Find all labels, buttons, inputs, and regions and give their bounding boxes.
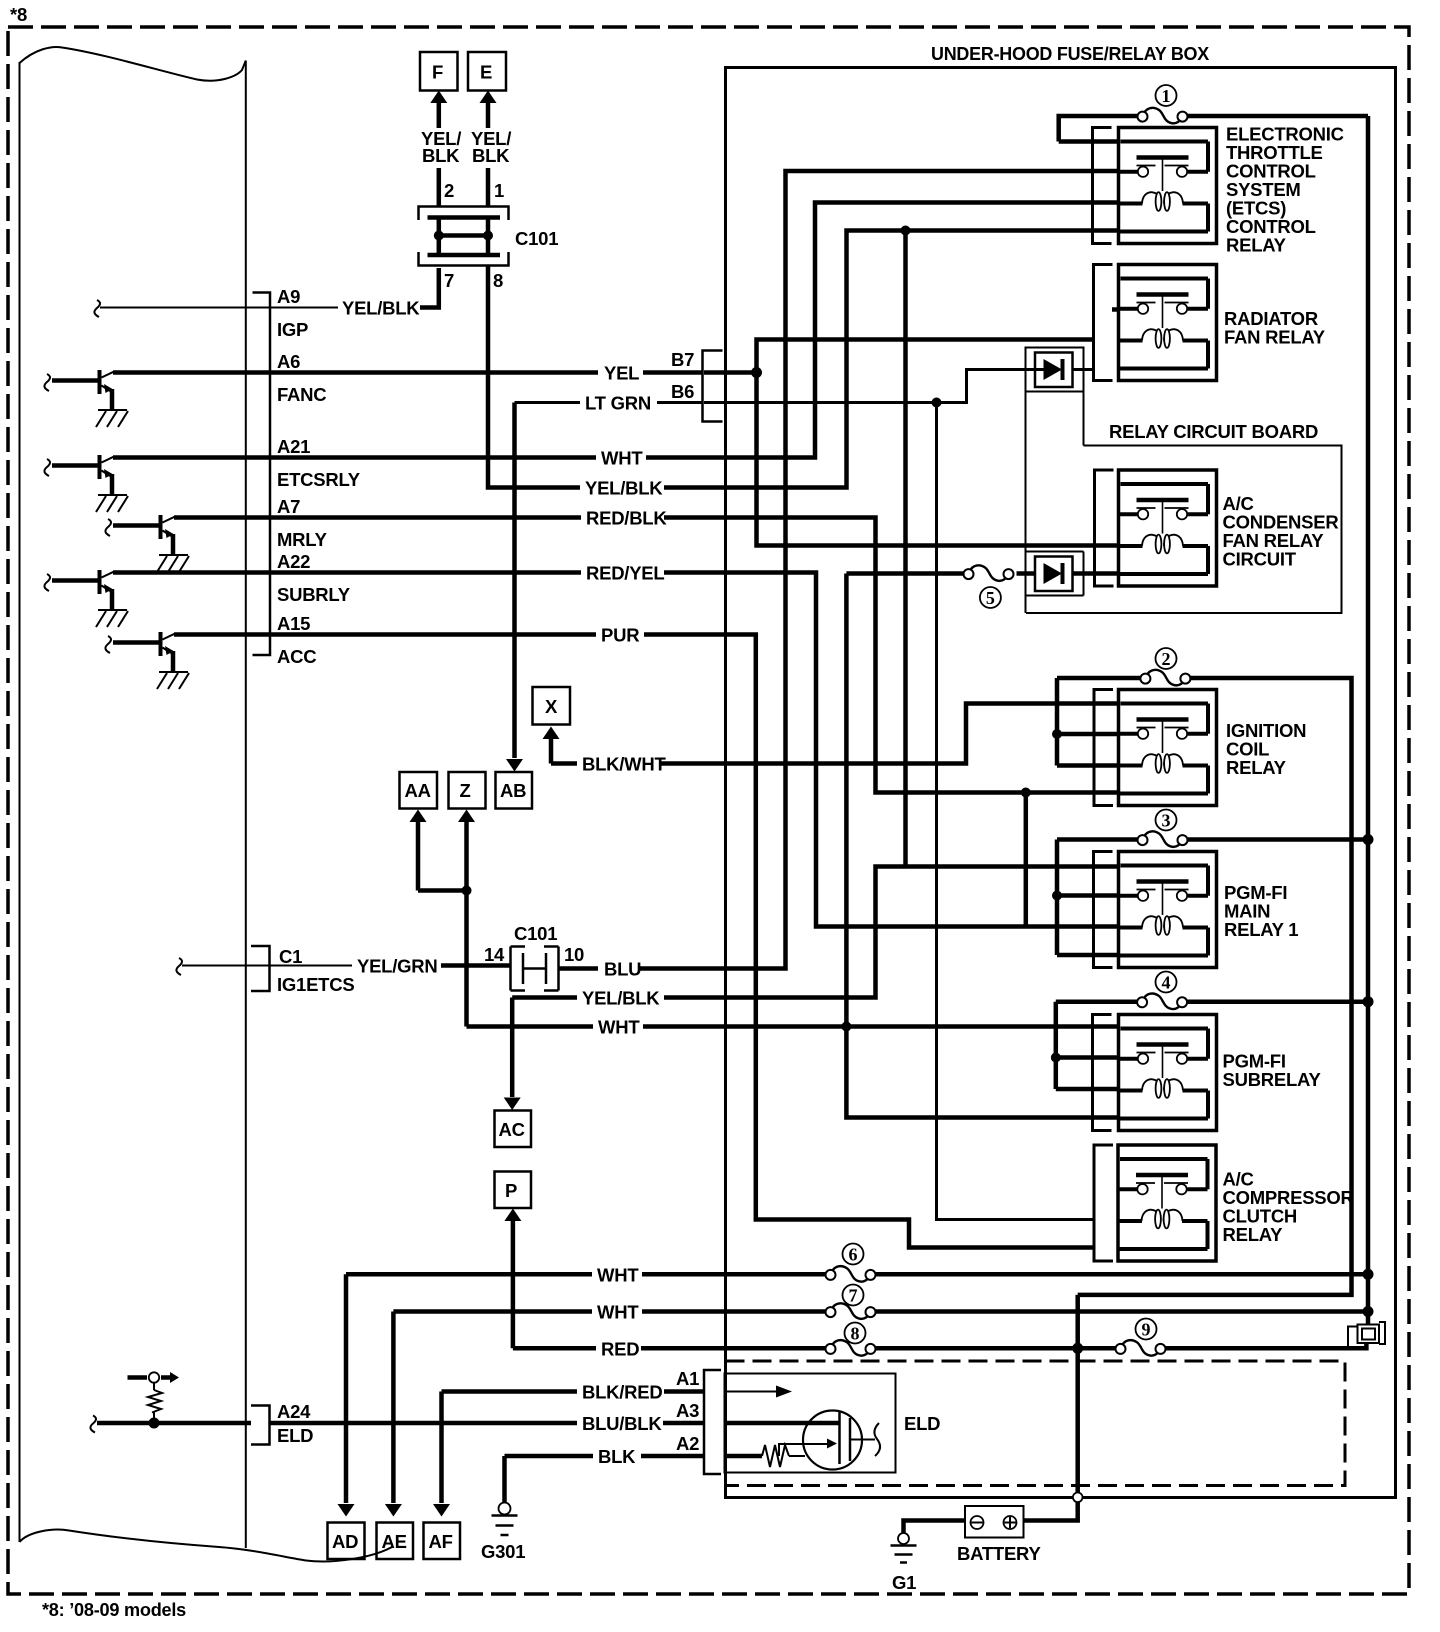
wire YEL inside box: [704, 370, 757, 375]
svg-text:AC: AC: [499, 1119, 525, 1140]
junction dot bus/fuse4: [1363, 996, 1374, 1007]
svg-text:5: 5: [986, 588, 995, 608]
svg-text:FANC: FANC: [277, 384, 326, 405]
arrow into P: [504, 1209, 521, 1222]
svg-text:7: 7: [444, 270, 454, 291]
wire YEL branch up to radiator fan coil: [757, 340, 1094, 373]
svg-text:9: 9: [1142, 1320, 1151, 1340]
svg-text:A7: A7: [277, 496, 300, 517]
fuse 7 number: [843, 1285, 864, 1306]
svg-text:B6: B6: [671, 381, 694, 402]
wire A24 row: [90, 1416, 96, 1433]
ground G1: [898, 1533, 909, 1544]
wire A9 IGP to C101 pin7: [94, 300, 172, 317]
wire C101 pin2 to F: [437, 168, 442, 207]
wire branch to main relay top contact: [903, 231, 908, 867]
terminal box AD: [328, 1523, 365, 1560]
svg-text:RED: RED: [601, 1338, 639, 1359]
transistor Q2 (ETCSRLY driver): [44, 455, 128, 512]
arrow into AD: [344, 1274, 349, 1503]
svg-text:A9: A9: [277, 286, 300, 307]
svg-text:AA: AA: [405, 780, 431, 801]
svg-text:PUR: PUR: [601, 625, 639, 646]
arrow into X: [549, 738, 554, 764]
wire subrelay coil left feed: [1056, 1087, 1119, 1092]
bracket U1: [1093, 128, 1112, 244]
junction dot fuse6/bus: [1363, 1269, 1374, 1280]
svg-text:E: E: [480, 62, 492, 83]
wire diode1 out to radiator fan coil return: [1073, 368, 1094, 371]
svg-text:ETCSRLY: ETCSRLY: [277, 469, 361, 490]
connector bracket A24: [251, 1406, 270, 1445]
svg-text:*8: *8: [10, 4, 27, 25]
svg-text:YEL/BLK: YEL/BLK: [342, 298, 420, 319]
wire RED row to fuse 8: [513, 1346, 596, 1351]
svg-text:YEL/BLK: YEL/BLK: [582, 988, 660, 1009]
wire YEL/BLK to ETCS coil return: [664, 231, 1119, 488]
svg-text:SUBRLY: SUBRLY: [277, 584, 351, 605]
svg-text:YEL/GRN: YEL/GRN: [357, 956, 437, 977]
arrow into F: [437, 100, 442, 128]
transistor Q5 (ACC driver): [105, 632, 189, 689]
svg-text:ELD: ELD: [277, 1425, 313, 1446]
svg-text:14: 14: [484, 944, 505, 965]
junction dot ignition left contact: [1052, 729, 1062, 739]
wire A21 ETCSRLY: [113, 455, 596, 460]
wire LT GRN branch down to compressor coil: [937, 403, 1095, 1220]
svg-text:C1: C1: [279, 946, 302, 967]
arrow into AE: [391, 1312, 396, 1504]
svg-text:UNDER-HOOD FUSE/RELAY BOX: UNDER-HOOD FUSE/RELAY BOX: [931, 43, 1210, 64]
svg-text:BATTERY: BATTERY: [957, 1543, 1041, 1564]
fuse 4 number: [1156, 972, 1177, 993]
svg-text:BLK: BLK: [472, 145, 510, 166]
svg-text:IG1ETCS: IG1ETCS: [277, 974, 354, 995]
svg-text:BLK/WHT: BLK/WHT: [582, 754, 666, 775]
wire A6 FANC to B7: [113, 370, 598, 375]
bracket U2: [1094, 265, 1113, 381]
junction dot ignition return / main coil feed: [1021, 788, 1031, 798]
wire A7 MRLY: [174, 515, 581, 520]
wire WHT row1 to fuse 6: [346, 1272, 592, 1277]
svg-text:X: X: [545, 696, 558, 717]
junction dot AA/Z: [462, 886, 472, 896]
junction dot fuse7/bus: [1363, 1306, 1374, 1317]
bracket U4: [1094, 690, 1113, 806]
terminal box Z: [449, 772, 486, 809]
wire subrelay coil return feed: [846, 1027, 1118, 1118]
arrow into AF: [439, 1392, 444, 1504]
arrow into AB: [512, 403, 517, 759]
svg-text:AB: AB: [500, 780, 526, 801]
connector bracket C1: [251, 946, 270, 991]
svg-text:AD: AD: [332, 1531, 358, 1552]
transistor Q3 (MRLY driver): [105, 515, 189, 572]
ELD box: [725, 1374, 896, 1473]
svg-text:BLK: BLK: [598, 1446, 636, 1467]
transistor Q1 (FANC driver): [44, 370, 128, 427]
svg-text:AE: AE: [382, 1531, 407, 1552]
fuse 4: [1137, 994, 1187, 1010]
junction dot ETCS return branch: [901, 226, 911, 236]
fuse 5: [964, 565, 1014, 581]
terminal box AC: [495, 1111, 532, 1148]
terminal box E: [468, 52, 506, 91]
svg-text:A1: A1: [676, 1368, 699, 1389]
svg-text:A3: A3: [676, 1400, 699, 1421]
terminal box AA: [400, 772, 438, 809]
fuse 8: [826, 1340, 876, 1356]
bracket U3: [1095, 470, 1114, 586]
svg-text:A6: A6: [277, 351, 300, 372]
wire YEL/BLK from C101 pin8: [488, 266, 580, 488]
svg-text:YEL/BLK: YEL/BLK: [585, 478, 663, 499]
transistor Q4 (SUBRLY driver): [44, 570, 128, 627]
svg-text:A15: A15: [277, 613, 310, 634]
junction dot YEL: [751, 367, 762, 378]
svg-text:A24: A24: [277, 1401, 311, 1422]
fuse 9: [1116, 1340, 1166, 1356]
junction dot WHT bus: [841, 1022, 851, 1032]
terminal box X: [533, 687, 571, 725]
wire WHT row2 to fuse 7: [393, 1309, 592, 1314]
fuse 2 number: [1156, 648, 1177, 669]
wire YEL branch down to condenser fan coil: [757, 373, 1119, 546]
fuse 6: [826, 1266, 876, 1282]
ground G301: [502, 1456, 507, 1502]
bracket U6: [1093, 1015, 1112, 1131]
svg-text:3: 3: [1162, 811, 1171, 831]
terminal box AE: [377, 1523, 414, 1560]
svg-text:LT GRN: LT GRN: [585, 393, 651, 414]
junction dot battery feed: [1072, 1343, 1083, 1354]
svg-text:A21: A21: [277, 436, 310, 457]
wire radiator left contact stub: [1112, 307, 1119, 312]
battery: [965, 1506, 1024, 1538]
wire battery positive column: [1024, 1295, 1078, 1521]
connector bracket A9-A15: [253, 293, 271, 656]
svg-text:C101: C101: [514, 923, 557, 944]
svg-text:10: 10: [564, 944, 584, 965]
relay U5 PGM-FI main relay 1: [1119, 852, 1217, 968]
junction dot LT GRN: [932, 398, 942, 408]
wire BLU from C101 pin10: [559, 966, 599, 971]
svg-text:2: 2: [1162, 649, 1171, 669]
ELD pull-up symbol (inside ECM): [128, 1375, 173, 1380]
wire BLK to G301: [505, 1454, 594, 1459]
svg-text:G301: G301: [481, 1541, 525, 1562]
wire PUR to compressor relay coil return: [644, 635, 1094, 1248]
connector C101 (pins 2/1 to 7/8): [419, 207, 509, 266]
fuse 8 number: [845, 1323, 866, 1344]
wire fuse3 row: [1057, 837, 1368, 842]
bracket U5: [1094, 852, 1113, 968]
fuse 2: [1140, 670, 1190, 686]
svg-text:P: P: [505, 1180, 517, 1201]
relay U2 radiator fan relay: [1119, 265, 1217, 381]
wire LT GRN to B6: [515, 401, 581, 404]
svg-text:A2: A2: [676, 1433, 699, 1454]
junction dot main left contact: [1052, 891, 1062, 901]
fuse 9 number: [1136, 1319, 1157, 1340]
wire C1 IG1ETCS to C101 pin14: [176, 958, 269, 975]
diode D1 (radiator fan): [1035, 353, 1073, 388]
ELD source resistor: [725, 1454, 763, 1459]
wire right bus: [1366, 116, 1371, 1325]
terminal box F: [420, 52, 458, 91]
wire main relay feed column: [1055, 840, 1060, 956]
svg-text:B7: B7: [671, 349, 694, 370]
wire battery negative to G1: [904, 1521, 966, 1533]
svg-text:*8: ’08-09 models: *8: ’08-09 models: [42, 1599, 186, 1620]
svg-text:4: 4: [1162, 973, 1171, 993]
wire fuse1 row: [1059, 116, 1368, 142]
wire fuse9 row: [1078, 1343, 1367, 1348]
svg-text:RELAY CIRCUIT BOARD: RELAY CIRCUIT BOARD: [1109, 421, 1318, 442]
svg-text:WHT: WHT: [601, 448, 643, 469]
wire BLK/WHT from X: [551, 761, 577, 766]
wire subrelay left contact feed: [1056, 1055, 1119, 1060]
wire BLK/WHT to ignition relay top contact: [661, 704, 1119, 764]
ELD drain squiggle: [862, 1439, 876, 1441]
fuse 1: [1138, 108, 1188, 124]
terminal box AF: [424, 1523, 461, 1560]
wire RED/BLK to ignition coil return: [664, 518, 1119, 793]
svg-text:1: 1: [494, 180, 504, 201]
ELD connector bracket: [704, 1370, 721, 1474]
svg-text:WHT: WHT: [597, 1264, 639, 1285]
svg-text:8: 8: [851, 1324, 860, 1344]
relay circuit board enclosure: [1026, 348, 1342, 614]
arrow into Z: [458, 810, 475, 823]
wire ETCS top contact feed: [1059, 139, 1119, 144]
arrow into AA: [410, 810, 427, 823]
ECM/PCM body outline (wavy): [20, 47, 246, 81]
bracket U7: [1094, 1145, 1113, 1261]
relay U3 A/C condenser fan relay: [1119, 470, 1217, 586]
wire main left contact feed: [1057, 893, 1119, 898]
svg-text:IGP: IGP: [277, 319, 308, 340]
wire main coil return feed: [1057, 953, 1119, 958]
svg-text:A22: A22: [277, 551, 310, 572]
wire RED/YEL to main relay coil left row: [664, 573, 1119, 927]
svg-text:ACC: ACC: [277, 646, 316, 667]
fuse 6 number: [843, 1244, 864, 1265]
resistor (ELD sense): [148, 1390, 162, 1423]
junction dot A24: [149, 1418, 160, 1429]
svg-text:2: 2: [444, 180, 454, 201]
wire fuse2 row: [1057, 678, 1352, 1295]
wire ignition left contact feed: [1057, 732, 1119, 737]
junction dot subrelay left contact: [1051, 1053, 1061, 1063]
svg-text:7: 7: [849, 1286, 858, 1306]
ELD current arrow: [725, 1391, 779, 1393]
fuse 3: [1138, 831, 1188, 847]
svg-text:G1: G1: [892, 1572, 916, 1593]
relay U6 PGM-FI subrelay: [1119, 1015, 1217, 1131]
junction dot bus/fuse3: [1363, 834, 1374, 845]
relay U4 ignition coil relay: [1119, 690, 1217, 806]
wire WHT to ETCS coil: [646, 203, 1119, 458]
wire fuse5 row from WHT bus: [844, 574, 849, 1027]
wire ignition relay feed column: [1055, 678, 1060, 766]
svg-text:BLK/RED: BLK/RED: [582, 1382, 662, 1403]
inner dashed box around ELD: [726, 1361, 1346, 1486]
svg-text:BLU: BLU: [604, 959, 641, 980]
svg-text:F: F: [432, 62, 443, 83]
svg-text:8: 8: [493, 270, 503, 291]
svg-text:BLU/BLK: BLU/BLK: [582, 1413, 662, 1434]
connector bracket B7/B6: [703, 351, 723, 422]
wire diode2 out to condenser coil return: [1073, 571, 1119, 576]
wire LT GRN inside box: [704, 370, 1035, 403]
wire BLU/BLK from A24: [270, 1421, 578, 1426]
wire main relay coil left feed: [1024, 793, 1029, 927]
diode D2 (condenser fan): [1035, 557, 1073, 592]
svg-text:RED/YEL: RED/YEL: [586, 563, 664, 584]
under-hood fuse/relay box outline: [726, 68, 1396, 1498]
wire YEL/BLK to main relay top contact: [512, 995, 577, 1000]
ELD MOSFET: [803, 1411, 862, 1470]
svg-text:MRLY: MRLY: [277, 529, 328, 550]
connector C101 (pin 14 to 10): [511, 947, 559, 991]
wire WHT from Z to subrelay top contact: [467, 1024, 594, 1029]
wire AA-Z join: [418, 888, 467, 893]
grommet circle on box edge: [1073, 1493, 1083, 1503]
wire A15 ACC: [174, 632, 596, 637]
fuse 5 number: [980, 587, 1001, 608]
wire ignition coil left feed: [1057, 763, 1119, 768]
arrow into E: [486, 100, 491, 128]
fuse 3 number: [1156, 810, 1177, 831]
arrow into AC: [510, 998, 515, 1098]
wire A22 SUBRLY: [113, 570, 581, 575]
svg-text:1: 1: [1162, 86, 1171, 106]
svg-text:WHT: WHT: [597, 1302, 639, 1323]
svg-text:BLK: BLK: [422, 145, 460, 166]
terminal box AB: [496, 772, 533, 809]
svg-text:RADIATORFAN RELAY: RADIATORFAN RELAY: [1224, 308, 1326, 348]
wire BLK/RED to AF: [442, 1389, 578, 1394]
fuse 1 number: [1156, 85, 1177, 106]
connector component (battery terminal): [1358, 1325, 1380, 1344]
svg-text:6: 6: [849, 1245, 858, 1265]
relay U7 A/C compressor clutch relay: [1118, 1145, 1216, 1261]
svg-text:WHT: WHT: [598, 1017, 640, 1038]
svg-text:C101: C101: [515, 228, 558, 249]
svg-text:Z: Z: [460, 780, 471, 801]
wire subrelay feed column: [1054, 1002, 1059, 1089]
svg-text:YEL: YEL: [604, 363, 639, 384]
wire BLU to ETCS relay left contact: [640, 171, 1119, 969]
svg-text:ELD: ELD: [904, 1413, 940, 1434]
fuse 7: [826, 1303, 876, 1319]
wire C101 pin1 to E: [486, 168, 491, 207]
svg-text:AF: AF: [429, 1531, 453, 1552]
relay U1 ETCS control relay: [1119, 128, 1217, 244]
wire fuse4 row: [1056, 999, 1368, 1004]
svg-text:RED/BLK: RED/BLK: [586, 508, 667, 529]
terminal box P: [495, 1172, 532, 1209]
